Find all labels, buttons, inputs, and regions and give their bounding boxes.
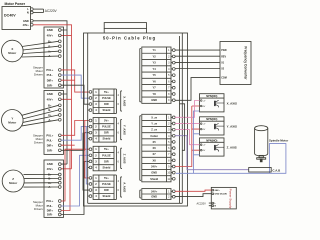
wire 24V+ to sensors (red) xyxy=(175,106,199,167)
wire Y3 to X1 xyxy=(175,61,220,63)
wire 40V+ bus xyxy=(33,25,71,169)
svg-text:DIR+: DIR+ xyxy=(47,78,54,82)
svg-text:24V+: 24V+ xyxy=(151,164,158,168)
wire sensor 0V bus (blue) xyxy=(194,111,200,173)
svg-text:DIR+: DIR+ xyxy=(47,209,54,213)
svg-text:Y_ze: Y_ze xyxy=(151,122,157,126)
svg-text:PULSE: PULSE xyxy=(102,96,111,100)
terminal block 24V power pins xyxy=(140,189,175,200)
svg-text:24V+: 24V+ xyxy=(215,189,221,192)
svg-text:Motor Power: Motor Power xyxy=(5,2,26,6)
svg-text:PUL+: PUL+ xyxy=(46,199,53,203)
wire Y_ze to S2 (pink) xyxy=(175,122,199,124)
wire Y1 to FWD xyxy=(175,49,220,51)
wire GND to PSU2 xyxy=(175,194,211,197)
svg-text:PULSE: PULSE xyxy=(102,125,111,129)
svg-text:X_AXIS: X_AXIS xyxy=(227,102,237,106)
wire GND to COM xyxy=(175,78,220,101)
svg-text:50-Pin Cable Plug: 50-Pin Cable Plug xyxy=(103,35,156,40)
wire 24V+ to PSU2 (red) xyxy=(175,190,211,191)
sensor S1 NPN(NO) X_AXIS xyxy=(200,94,237,112)
svg-text:B-: B- xyxy=(48,44,51,48)
svg-text:Motor: Motor xyxy=(8,121,17,125)
svg-text:B-: B- xyxy=(48,177,51,181)
power supply PSU2 DC24V xyxy=(211,187,236,209)
terminal strip C.A.B xyxy=(249,168,281,173)
svg-text:Shield: Shield xyxy=(103,194,111,198)
svg-text:COM: COM xyxy=(221,77,227,80)
wire Y4 to X2 xyxy=(175,68,220,70)
svg-text:40V+: 40V+ xyxy=(47,97,54,101)
svg-text:DIR: DIR xyxy=(104,159,109,163)
svg-text:REV: REV xyxy=(221,55,226,58)
svg-text:GND: GND xyxy=(151,98,157,102)
svg-text:B+: B+ xyxy=(48,103,52,107)
wire U2 PUL- (blue) xyxy=(61,127,89,141)
svg-text:GND: GND xyxy=(151,195,157,199)
wire N to AC220V xyxy=(33,12,43,14)
wire U2 DIR- (black) xyxy=(61,133,89,151)
wire Y motor phases xyxy=(22,105,59,126)
wire Cutter to CAB (purple) xyxy=(175,136,249,170)
wire Z motor phases xyxy=(24,174,59,187)
svg-text:PULSE: PULSE xyxy=(102,153,111,157)
svg-text:Frequency Converter: Frequency Converter xyxy=(243,46,247,80)
svg-text:GND DC24V: GND DC24V xyxy=(215,193,228,196)
svg-text:5V+: 5V+ xyxy=(104,90,109,94)
svg-text:Z_ze: Z_ze xyxy=(151,128,157,132)
svg-text:X6: X6 xyxy=(153,146,157,150)
svg-text:GND: GND xyxy=(47,162,53,166)
wire X motor phases xyxy=(22,41,59,57)
svg-text:Y3: Y3 xyxy=(153,61,157,65)
stepper driver U3 (Z axis) xyxy=(44,160,64,217)
label Stepper Motor Drivers 1 xyxy=(33,66,43,77)
svg-text:Cutter: Cutter xyxy=(150,134,158,138)
svg-text:AC220V: AC220V xyxy=(197,202,207,205)
svg-text:GND: GND xyxy=(151,171,157,175)
wire U1 DIR- (black) xyxy=(61,85,89,104)
wire AC220V stubs xyxy=(209,203,212,206)
svg-text:C.A.B: C.A.B xyxy=(272,168,280,172)
svg-text:Drivers: Drivers xyxy=(34,207,43,211)
svg-text:PUL-: PUL- xyxy=(47,73,53,77)
label Stepper Motor Drivers 3 xyxy=(33,200,43,211)
svg-text:NPN(NO): NPN(NO) xyxy=(206,94,217,98)
svg-text:GND: GND xyxy=(23,19,29,23)
svg-text:B+: B+ xyxy=(48,173,52,177)
wire spindle loop (blue) xyxy=(176,144,286,174)
svg-text:AC220V: AC220V xyxy=(45,9,58,13)
svg-text:GND: GND xyxy=(47,92,53,96)
wire A axis parallel blue xyxy=(86,127,89,184)
svg-text:5V+: 5V+ xyxy=(104,119,109,123)
svg-text:X5: X5 xyxy=(153,140,157,144)
wire Y2 to REV xyxy=(175,55,220,57)
svg-text:Power Supply: Power Supply xyxy=(229,189,233,209)
wire U3 PUL+ (red) xyxy=(61,149,89,201)
svg-text:40V+: 40V+ xyxy=(23,23,30,27)
terminal column B inputs X_ze..Shield xyxy=(140,114,175,182)
wire shield bus left xyxy=(87,33,89,203)
wire L to AC220V xyxy=(33,8,43,10)
svg-text:Motor: Motor xyxy=(9,181,18,185)
label Stepper Motor Drivers 2 xyxy=(33,134,43,145)
svg-text:A+: A+ xyxy=(48,181,52,185)
svg-text:DIR: DIR xyxy=(104,131,109,135)
svg-text:40V+: 40V+ xyxy=(47,167,54,171)
wire L-N join xyxy=(43,9,45,12)
connector block A_AXIS xyxy=(89,175,126,200)
svg-text:40V+: 40V+ xyxy=(47,34,54,38)
wire U3 DIR- (black) xyxy=(61,161,89,214)
svg-text:X8: X8 xyxy=(153,158,157,162)
wire Z_ze to S3 (pink) xyxy=(175,130,199,145)
svg-text:Shield: Shield xyxy=(103,165,111,169)
svg-text:Shield: Shield xyxy=(103,137,111,141)
svg-text:N: N xyxy=(27,11,29,15)
svg-text:Y1: Y1 xyxy=(153,48,157,52)
wire U3 PUL- (blue) xyxy=(61,155,89,206)
svg-text:Y_AXIS: Y_AXIS xyxy=(227,125,237,129)
svg-text:Drivers: Drivers xyxy=(34,141,43,145)
svg-text:Y7: Y7 xyxy=(153,86,157,90)
svg-text:Y6: Y6 xyxy=(153,79,157,83)
svg-text:NPN(NO): NPN(NO) xyxy=(206,117,217,121)
svg-text:A+: A+ xyxy=(48,49,52,53)
svg-text:24V+: 24V+ xyxy=(151,189,158,193)
sensor S3 NPN(NO) Z_AXIS xyxy=(200,138,237,156)
svg-text:PUL-: PUL- xyxy=(47,204,53,208)
wire GND bus xyxy=(33,21,67,164)
svg-text:DIR-: DIR- xyxy=(47,213,53,217)
svg-text:PUL+: PUL+ xyxy=(46,68,53,72)
sensor S2 NPN(NO) Y_AXIS xyxy=(200,117,237,135)
svg-text:5V+: 5V+ xyxy=(104,147,109,151)
svg-text:Shield: Shield xyxy=(103,108,111,112)
connector block Y_AXIS xyxy=(89,118,126,143)
wire shield stubs xyxy=(88,110,90,196)
motor M3 Z Motor xyxy=(2,170,24,192)
svg-text:DIR-: DIR- xyxy=(47,83,53,87)
svg-text:Y2: Y2 xyxy=(153,54,157,58)
svg-text:A-: A- xyxy=(48,54,51,58)
svg-text:PULSE: PULSE xyxy=(102,182,111,186)
svg-text:A-: A- xyxy=(48,118,51,122)
svg-text:Z_AXIS: Z_AXIS xyxy=(122,154,126,164)
svg-text:Y8: Y8 xyxy=(153,92,157,96)
svg-text:Z_AXIS: Z_AXIS xyxy=(227,146,237,150)
connector block Z_AXIS xyxy=(89,146,126,171)
svg-text:Y_AXIS: Y_AXIS xyxy=(122,125,126,135)
connector J1 50-Pin Cable Plug enclosure xyxy=(84,23,188,206)
wire X_ze to S1 (pink) xyxy=(175,101,199,118)
wire U2 PUL+/DIR+ 5V (red) xyxy=(61,121,89,146)
svg-text:B-: B- xyxy=(48,108,51,112)
svg-text:X_ze: X_ze xyxy=(151,115,157,119)
power supply PSU1 DC40V Motor Power xyxy=(2,2,33,30)
wire A axis parallel red xyxy=(85,121,89,178)
motor M2 Y Motor xyxy=(2,110,24,132)
svg-text:DIR-: DIR- xyxy=(47,148,53,152)
svg-text:Spindle Motor: Spindle Motor xyxy=(269,139,289,143)
stepper driver U1 (X axis) xyxy=(44,27,64,88)
svg-text:Drivers: Drivers xyxy=(34,73,43,77)
motor M1 X Motor xyxy=(2,40,24,62)
wire A axis parallel black xyxy=(83,133,89,190)
svg-text:GND: GND xyxy=(47,28,53,32)
stepper driver U2 (Y axis) xyxy=(44,91,64,155)
svg-text:DIR: DIR xyxy=(104,102,109,106)
svg-text:NPN(NO): NPN(NO) xyxy=(206,138,217,142)
spindle motor M4 xyxy=(255,126,268,162)
svg-text:Y4: Y4 xyxy=(153,67,157,71)
svg-text:B+: B+ xyxy=(48,39,52,43)
svg-text:DIR+: DIR+ xyxy=(47,143,54,147)
terminal column A outputs Y1-Y8 GND xyxy=(140,47,175,103)
svg-text:FWD: FWD xyxy=(221,49,227,52)
svg-text:Motor: Motor xyxy=(8,51,17,55)
wire U1 PUL+/DIR+ 5V (red) xyxy=(61,70,89,92)
wire sensor ground steps xyxy=(180,104,185,151)
svg-text:A+: A+ xyxy=(48,113,52,117)
svg-text:DIR: DIR xyxy=(104,188,109,192)
svg-text:X7: X7 xyxy=(153,152,157,156)
svg-text:X_AXIS: X_AXIS xyxy=(122,96,126,106)
frequency converter VFD1 xyxy=(220,42,251,85)
wire U1 PUL- (blue) xyxy=(61,75,89,98)
svg-text:5V+: 5V+ xyxy=(104,176,109,180)
wire shield bus right xyxy=(88,33,183,203)
svg-text:PUL+: PUL+ xyxy=(46,133,53,137)
svg-text:Y5: Y5 xyxy=(153,73,157,77)
wire U3 DIR+ (red) xyxy=(61,149,70,210)
connector block X_AXIS xyxy=(89,89,126,114)
svg-text:A-: A- xyxy=(48,185,51,189)
svg-text:A_AXIS: A_AXIS xyxy=(122,182,126,192)
svg-text:Shield: Shield xyxy=(150,177,158,181)
svg-text:DC40V: DC40V xyxy=(4,13,16,17)
svg-text:PUL-: PUL- xyxy=(47,138,53,142)
